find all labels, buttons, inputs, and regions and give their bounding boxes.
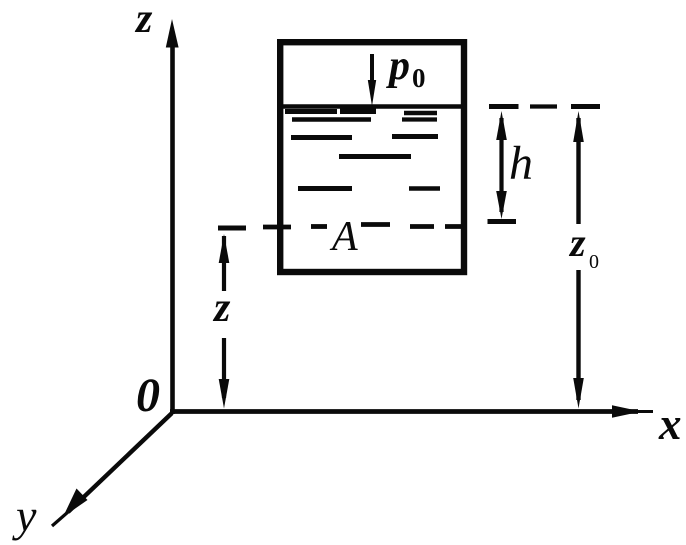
svg-text:p: p [386,43,410,89]
water shading dashes row2 [292,117,437,122]
svg-text:z: z [212,285,231,331]
water shading dashes row1 [285,111,437,114]
dimension z0 [571,107,600,409]
water shading dashes row3 [291,137,438,138]
p0 arrow [368,54,376,106]
dimension z [218,228,246,409]
water shading dash row4 [339,154,411,159]
svg-text:h: h [509,137,533,190]
svg-text:0: 0 [136,369,160,422]
svg-text:x: x [658,399,682,449]
svg-text:0: 0 [412,63,426,93]
svg-text:0: 0 [589,251,599,273]
water shading dashes row5 [298,186,440,191]
z-axis [166,19,179,414]
p0 label [386,43,426,93]
container tank [280,42,464,272]
svg-text:A: A [329,214,358,260]
svg-text:z: z [134,0,153,42]
svg-text:y: y [12,490,37,541]
dimension h [488,107,519,222]
x-axis [170,405,653,418]
svg-text:z: z [568,220,586,265]
label z0 [568,220,599,273]
dashed level line A [263,225,463,228]
water surface dashed extension [530,104,557,108]
water surface line [277,104,466,109]
y-axis [52,413,172,526]
